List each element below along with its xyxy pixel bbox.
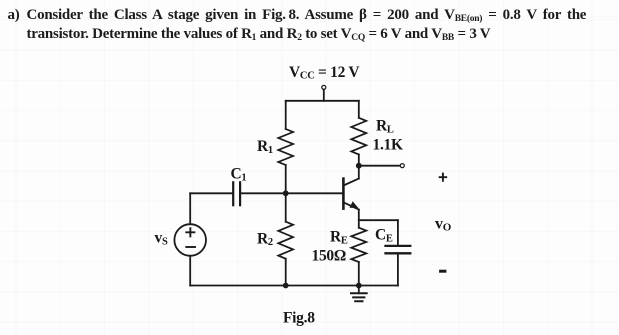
wire emitter to CE — [359, 219, 398, 221]
svg-text:CE: CE — [375, 227, 393, 245]
node collector output junction — [356, 163, 362, 169]
svg-text:vO: vO — [435, 215, 452, 233]
output terminal — [400, 164, 404, 168]
RE value 150ohm — [312, 247, 346, 264]
capacitor CE — [386, 220, 411, 285]
wire R2 to bottom rail — [285, 259, 287, 286]
wire output tap — [359, 165, 400, 167]
problem statement line 1 — [8, 7, 20, 24]
wire down to vs — [189, 193, 191, 224]
resistor R2 — [278, 222, 293, 259]
CE label — [375, 227, 393, 245]
Fig.8 caption — [283, 310, 315, 327]
wire C1 to base — [241, 192, 342, 194]
svg-text:Fig.8: Fig.8 — [283, 310, 315, 327]
C1 label — [231, 166, 247, 184]
RE label — [330, 229, 348, 247]
ground — [351, 286, 367, 302]
resistor RE — [351, 228, 366, 262]
resistor RL — [351, 118, 366, 155]
bottom rail wire — [190, 285, 398, 287]
svg-text:R2: R2 — [257, 230, 273, 248]
svg-text:1.1K: 1.1K — [373, 137, 403, 154]
wire R1 to base node — [285, 165, 287, 193]
VCC label — [289, 64, 360, 82]
wire rail to RL — [358, 101, 360, 118]
wire RL to collector — [358, 155, 360, 179]
wire RE to bottom rail — [358, 262, 360, 286]
RL label — [376, 118, 394, 136]
node RE bottom junction — [356, 283, 362, 289]
svg-text:R1: R1 — [257, 138, 273, 156]
svg-text:VCC = 12 V: VCC = 12 V — [289, 64, 360, 82]
output minus label — [441, 270, 445, 273]
resistor R1 — [278, 129, 293, 165]
vs label — [155, 230, 168, 248]
svg-text:RL: RL — [376, 118, 394, 136]
svg-text:RE: RE — [330, 229, 348, 247]
RL value 1.1K — [373, 137, 403, 154]
svg-text:vS: vS — [155, 230, 168, 248]
wire vs to C1 — [190, 192, 232, 194]
wire rail to R1 — [285, 101, 287, 129]
wire emitter down — [358, 210, 360, 228]
output plus label — [440, 174, 447, 181]
wire node to R2 — [285, 193, 287, 221]
node R2 bottom junction — [283, 283, 289, 289]
top supply rail wire — [286, 100, 359, 102]
wire vs to bottom rail — [189, 256, 191, 286]
VCC supply terminal — [322, 85, 326, 100]
problem statement line 2 — [27, 26, 491, 43]
svg-text:150Ω: 150Ω — [312, 247, 346, 264]
source vs — [174, 224, 206, 256]
capacitor C1 — [233, 182, 240, 205]
svg-text:C1: C1 — [231, 166, 247, 184]
output vo label — [435, 215, 452, 233]
R1 label — [257, 138, 273, 156]
node base node junction — [283, 190, 289, 196]
R2 label — [257, 230, 273, 248]
transistor Q1 — [343, 179, 358, 210]
